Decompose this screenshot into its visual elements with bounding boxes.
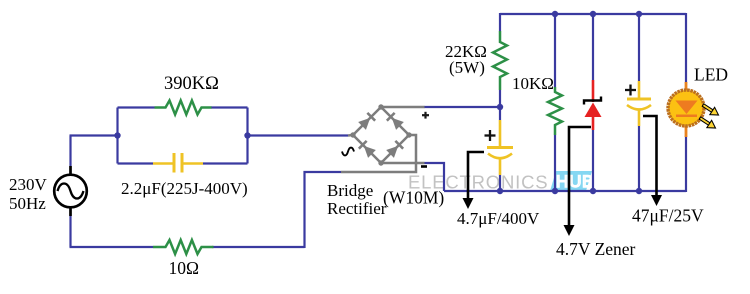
node top rail 47uF [636, 11, 642, 17]
svg-text:230V: 230V [9, 175, 48, 194]
wire: 4.7uF cap bottom lead blue [499, 175, 501, 192]
zener diode Z1 4.7V [584, 80, 602, 130]
diode D2 top-right [387, 113, 404, 130]
capacitor C2 4.7uF/400V [487, 120, 513, 175]
wire: RC top branch left [118, 106, 155, 108]
pointer arrow C3 label [643, 116, 662, 206]
wire: LED top lead blue [685, 13, 687, 83]
wire: RC bottom branch left [118, 162, 154, 164]
wire: AC1 stub [348, 134, 353, 137]
node RC right [244, 132, 250, 138]
capacitor C3 47uF/25V [627, 81, 651, 126]
node filter plus [497, 104, 503, 110]
wire: RC right vertical [246, 108, 248, 164]
node bottom rail 47uF [636, 188, 642, 194]
node top rail zener [590, 11, 596, 17]
wire: 47uF top lead blue [638, 13, 640, 81]
svg-text:HUB: HUB [556, 172, 594, 191]
diode D4 bottom-right [386, 141, 403, 158]
diode D1 top-left [358, 113, 375, 130]
wire: RC bottom branch right [203, 162, 248, 164]
wire: 10K column bottom lead [554, 135, 556, 192]
svg-text:4.7V Zener: 4.7V Zener [556, 239, 636, 259]
wire: 10K column top lead [554, 13, 556, 87]
svg-text:10Ω: 10Ω [169, 258, 200, 278]
label + C2 [485, 130, 496, 141]
wire: bridge plus output to filter node [424, 106, 500, 108]
wire: minus stub [381, 162, 425, 165]
svg-text:4.7μF/400V: 4.7μF/400V [457, 209, 540, 228]
svg-text:Rectifier: Rectifier [327, 199, 387, 218]
label + bridge [422, 112, 429, 119]
wire: bridge minus to DC bottom rail [425, 163, 445, 191]
bridge rectifier BR1 [341, 107, 425, 172]
node RC left [114, 132, 120, 138]
wire: source bottom down to bottom AC rail [69, 216, 71, 247]
resistor R1 390K [155, 101, 212, 115]
wire: RC top branch right [211, 106, 248, 108]
node bottom rail 10K [552, 188, 558, 194]
wire: plus stub [381, 106, 425, 109]
svg-text:390KΩ: 390KΩ [164, 74, 219, 94]
svg-text:47μF/25V: 47μF/25V [632, 206, 704, 226]
wire: bottom AC rail up to bridge AC2 [305, 172, 342, 248]
wire: bottom AC rail left segment [70, 246, 154, 248]
wire: left vertical from RC node down to source top [69, 136, 71, 167]
svg-text:50Hz: 50Hz [9, 194, 46, 213]
svg-text:(W10M): (W10M) [383, 188, 444, 208]
wire: zener bottom lead [592, 130, 594, 192]
capacitor C1 2.2uF [153, 153, 203, 173]
wire: RC left vertical [116, 108, 118, 164]
pointer arrow zener label [564, 127, 592, 236]
diode D3 bottom-left [359, 141, 376, 158]
svg-text:Bridge: Bridge [327, 181, 373, 200]
svg-text:10KΩ: 10KΩ [512, 74, 554, 93]
LED D5 [668, 82, 721, 137]
AC source V1 [54, 166, 87, 216]
resistor R3 22K vertical [493, 31, 507, 90]
label + C3 [625, 85, 636, 96]
wire: zener top lead [592, 13, 594, 80]
label ~ AC symbol [342, 148, 354, 156]
label - bridge [421, 165, 427, 168]
wire: bottom AC rail right segment [212, 246, 305, 248]
wire: top DC rail [500, 13, 686, 15]
wire: 47uF bottom lead blue [638, 126, 640, 192]
resistor R2 10Ohm [153, 240, 214, 254]
node top rail 10K [552, 11, 558, 17]
wire: 22K column mid lead [499, 90, 501, 120]
pointer arrow C2 label [463, 152, 485, 209]
resistor R4 10K vertical [548, 87, 562, 135]
svg-text:LED: LED [694, 65, 728, 85]
node bottom rail C2 [497, 188, 503, 194]
node bottom rail zener [590, 188, 596, 194]
svg-text:2.2μF(225J-400V): 2.2μF(225J-400V) [121, 179, 248, 198]
bridge diamond [353, 107, 409, 163]
LED light arrows [698, 101, 721, 131]
wire: DC bottom rail [444, 190, 686, 192]
svg-text:(5W): (5W) [449, 58, 485, 77]
wire: AC2 stub [341, 135, 416, 172]
bridge vertex dots [378, 104, 383, 109]
wire: LED bottom lead blue [685, 136, 687, 192]
wire: 22K column top lead [499, 13, 501, 31]
wire: RC node B to bridge AC1 [248, 134, 349, 136]
watermark HUB box [550, 171, 594, 191]
wire: node A to RC left [70, 134, 118, 136]
